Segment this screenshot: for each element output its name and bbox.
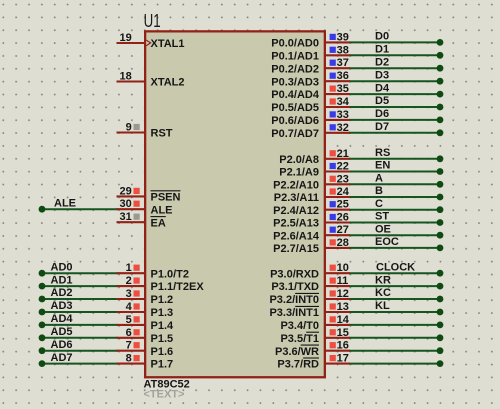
svg-text:22: 22 (337, 161, 349, 173)
svg-text:27: 27 (337, 224, 349, 236)
svg-text:D6: D6 (375, 108, 389, 120)
svg-text:XTAL2: XTAL2 (151, 77, 185, 89)
svg-text:RST: RST (151, 128, 173, 140)
svg-text:P1.5: P1.5 (151, 333, 174, 345)
svg-text:6: 6 (126, 327, 132, 339)
svg-text:CLOCK: CLOCK (376, 261, 415, 273)
svg-text:15: 15 (337, 327, 349, 339)
svg-text:29: 29 (120, 185, 132, 197)
svg-text:AD6: AD6 (51, 339, 73, 351)
svg-text:P2.1/A9: P2.1/A9 (279, 167, 319, 179)
svg-text:P2.4/A12: P2.4/A12 (273, 205, 319, 217)
svg-text:P2.3/A11: P2.3/A11 (274, 192, 319, 204)
svg-text:D2: D2 (375, 56, 389, 68)
svg-text:KR: KR (375, 274, 391, 286)
svg-text:AD4: AD4 (51, 313, 74, 325)
svg-text:<TEXT>: <TEXT> (144, 388, 185, 400)
svg-text:23: 23 (337, 173, 349, 185)
svg-text:AD3: AD3 (51, 300, 73, 312)
svg-text:32: 32 (337, 122, 349, 134)
svg-text:D3: D3 (375, 69, 389, 81)
svg-text:P1.0/T2: P1.0/T2 (151, 268, 190, 280)
svg-text:P0.0/AD0: P0.0/AD0 (271, 38, 319, 50)
svg-text:P2.7/A15: P2.7/A15 (273, 243, 319, 255)
svg-text:P3.3/INT1: P3.3/INT1 (269, 307, 319, 319)
svg-text:AD1: AD1 (51, 274, 73, 286)
svg-text:AD0: AD0 (51, 261, 73, 273)
svg-text:ALE: ALE (151, 204, 173, 216)
svg-text:12: 12 (337, 288, 349, 300)
svg-text:P1.7: P1.7 (151, 359, 174, 371)
svg-text:P3.5/T1: P3.5/T1 (280, 333, 319, 345)
svg-text:P0.7/AD7: P0.7/AD7 (271, 128, 319, 140)
svg-text:EA: EA (151, 217, 166, 229)
svg-text:16: 16 (337, 340, 349, 352)
svg-text:8: 8 (126, 353, 132, 365)
svg-text:P1.4: P1.4 (151, 320, 175, 332)
svg-text:35: 35 (337, 83, 349, 95)
svg-text:P0.1/AD1: P0.1/AD1 (271, 50, 319, 62)
svg-text:24: 24 (337, 186, 350, 198)
svg-text:P1.3: P1.3 (151, 307, 174, 319)
svg-text:P0.2/AD2: P0.2/AD2 (271, 63, 319, 75)
svg-text:XTAL1: XTAL1 (151, 38, 185, 50)
svg-text:11: 11 (337, 275, 349, 287)
svg-text:KL: KL (375, 300, 390, 312)
svg-text:P0.4/AD4: P0.4/AD4 (271, 89, 320, 101)
svg-text:21: 21 (337, 148, 349, 160)
svg-text:4: 4 (126, 301, 133, 313)
svg-text:17: 17 (337, 353, 349, 365)
svg-text:D7: D7 (375, 121, 389, 133)
svg-text:25: 25 (337, 199, 349, 211)
svg-text:P3.1/TXD: P3.1/TXD (271, 281, 319, 293)
svg-text:P2.0/A8: P2.0/A8 (279, 154, 319, 166)
svg-text:P1.6: P1.6 (151, 346, 174, 358)
svg-text:2: 2 (126, 275, 132, 287)
svg-text:ST: ST (375, 211, 389, 223)
svg-text:36: 36 (337, 70, 349, 82)
svg-text:P3.7/RD: P3.7/RD (277, 359, 319, 371)
svg-text:14: 14 (337, 314, 350, 326)
svg-text:P0.3/AD3: P0.3/AD3 (271, 76, 319, 88)
svg-text:P0.6/AD6: P0.6/AD6 (271, 115, 319, 127)
svg-text:EN: EN (375, 160, 390, 172)
svg-text:P3.4/T0: P3.4/T0 (280, 320, 319, 332)
svg-text:P3.0/RXD: P3.0/RXD (270, 268, 319, 280)
svg-text:KC: KC (375, 287, 391, 299)
svg-text:C: C (375, 198, 383, 210)
svg-text:EOC: EOC (375, 236, 399, 248)
svg-text:10: 10 (337, 262, 349, 274)
svg-text:39: 39 (337, 31, 349, 43)
svg-text:D4: D4 (375, 82, 390, 94)
svg-text:1: 1 (126, 262, 132, 274)
svg-text:5: 5 (126, 314, 132, 326)
svg-text:D5: D5 (375, 95, 389, 107)
svg-text:26: 26 (337, 212, 349, 224)
svg-text:30: 30 (120, 198, 132, 210)
svg-text:RS: RS (375, 147, 390, 159)
svg-text:P2.5/A13: P2.5/A13 (273, 218, 319, 230)
svg-text:D0: D0 (375, 31, 389, 43)
svg-text:B: B (375, 185, 383, 197)
svg-text:OE: OE (375, 223, 391, 235)
svg-text:AD7: AD7 (51, 352, 73, 364)
svg-text:P1.2: P1.2 (151, 294, 174, 306)
svg-text:P2.6/A14: P2.6/A14 (273, 230, 320, 242)
svg-text:P3.6/WR: P3.6/WR (275, 346, 319, 358)
svg-text:38: 38 (337, 44, 349, 56)
svg-text:P0.5/AD5: P0.5/AD5 (271, 102, 319, 114)
svg-text:13: 13 (337, 301, 349, 313)
svg-text:18: 18 (120, 71, 132, 83)
svg-text:PSEN: PSEN (151, 192, 181, 204)
svg-text:U1: U1 (144, 11, 161, 31)
svg-text:37: 37 (337, 57, 349, 69)
svg-text:19: 19 (120, 32, 132, 44)
svg-text:P2.2/A10: P2.2/A10 (273, 179, 319, 191)
svg-text:7: 7 (126, 340, 132, 352)
svg-text:AD2: AD2 (51, 287, 73, 299)
svg-text:D1: D1 (375, 44, 389, 56)
svg-text:P3.2/INT0: P3.2/INT0 (269, 294, 319, 306)
svg-text:33: 33 (337, 109, 349, 121)
svg-text:P1.1/T2EX: P1.1/T2EX (151, 281, 205, 293)
svg-text:31: 31 (120, 211, 132, 223)
svg-text:ALE: ALE (54, 198, 76, 210)
svg-text:9: 9 (126, 122, 132, 134)
svg-text:A: A (375, 173, 383, 185)
svg-text:AD5: AD5 (51, 326, 73, 338)
svg-text:28: 28 (337, 237, 349, 249)
svg-text:34: 34 (337, 96, 350, 108)
svg-text:3: 3 (126, 288, 132, 300)
